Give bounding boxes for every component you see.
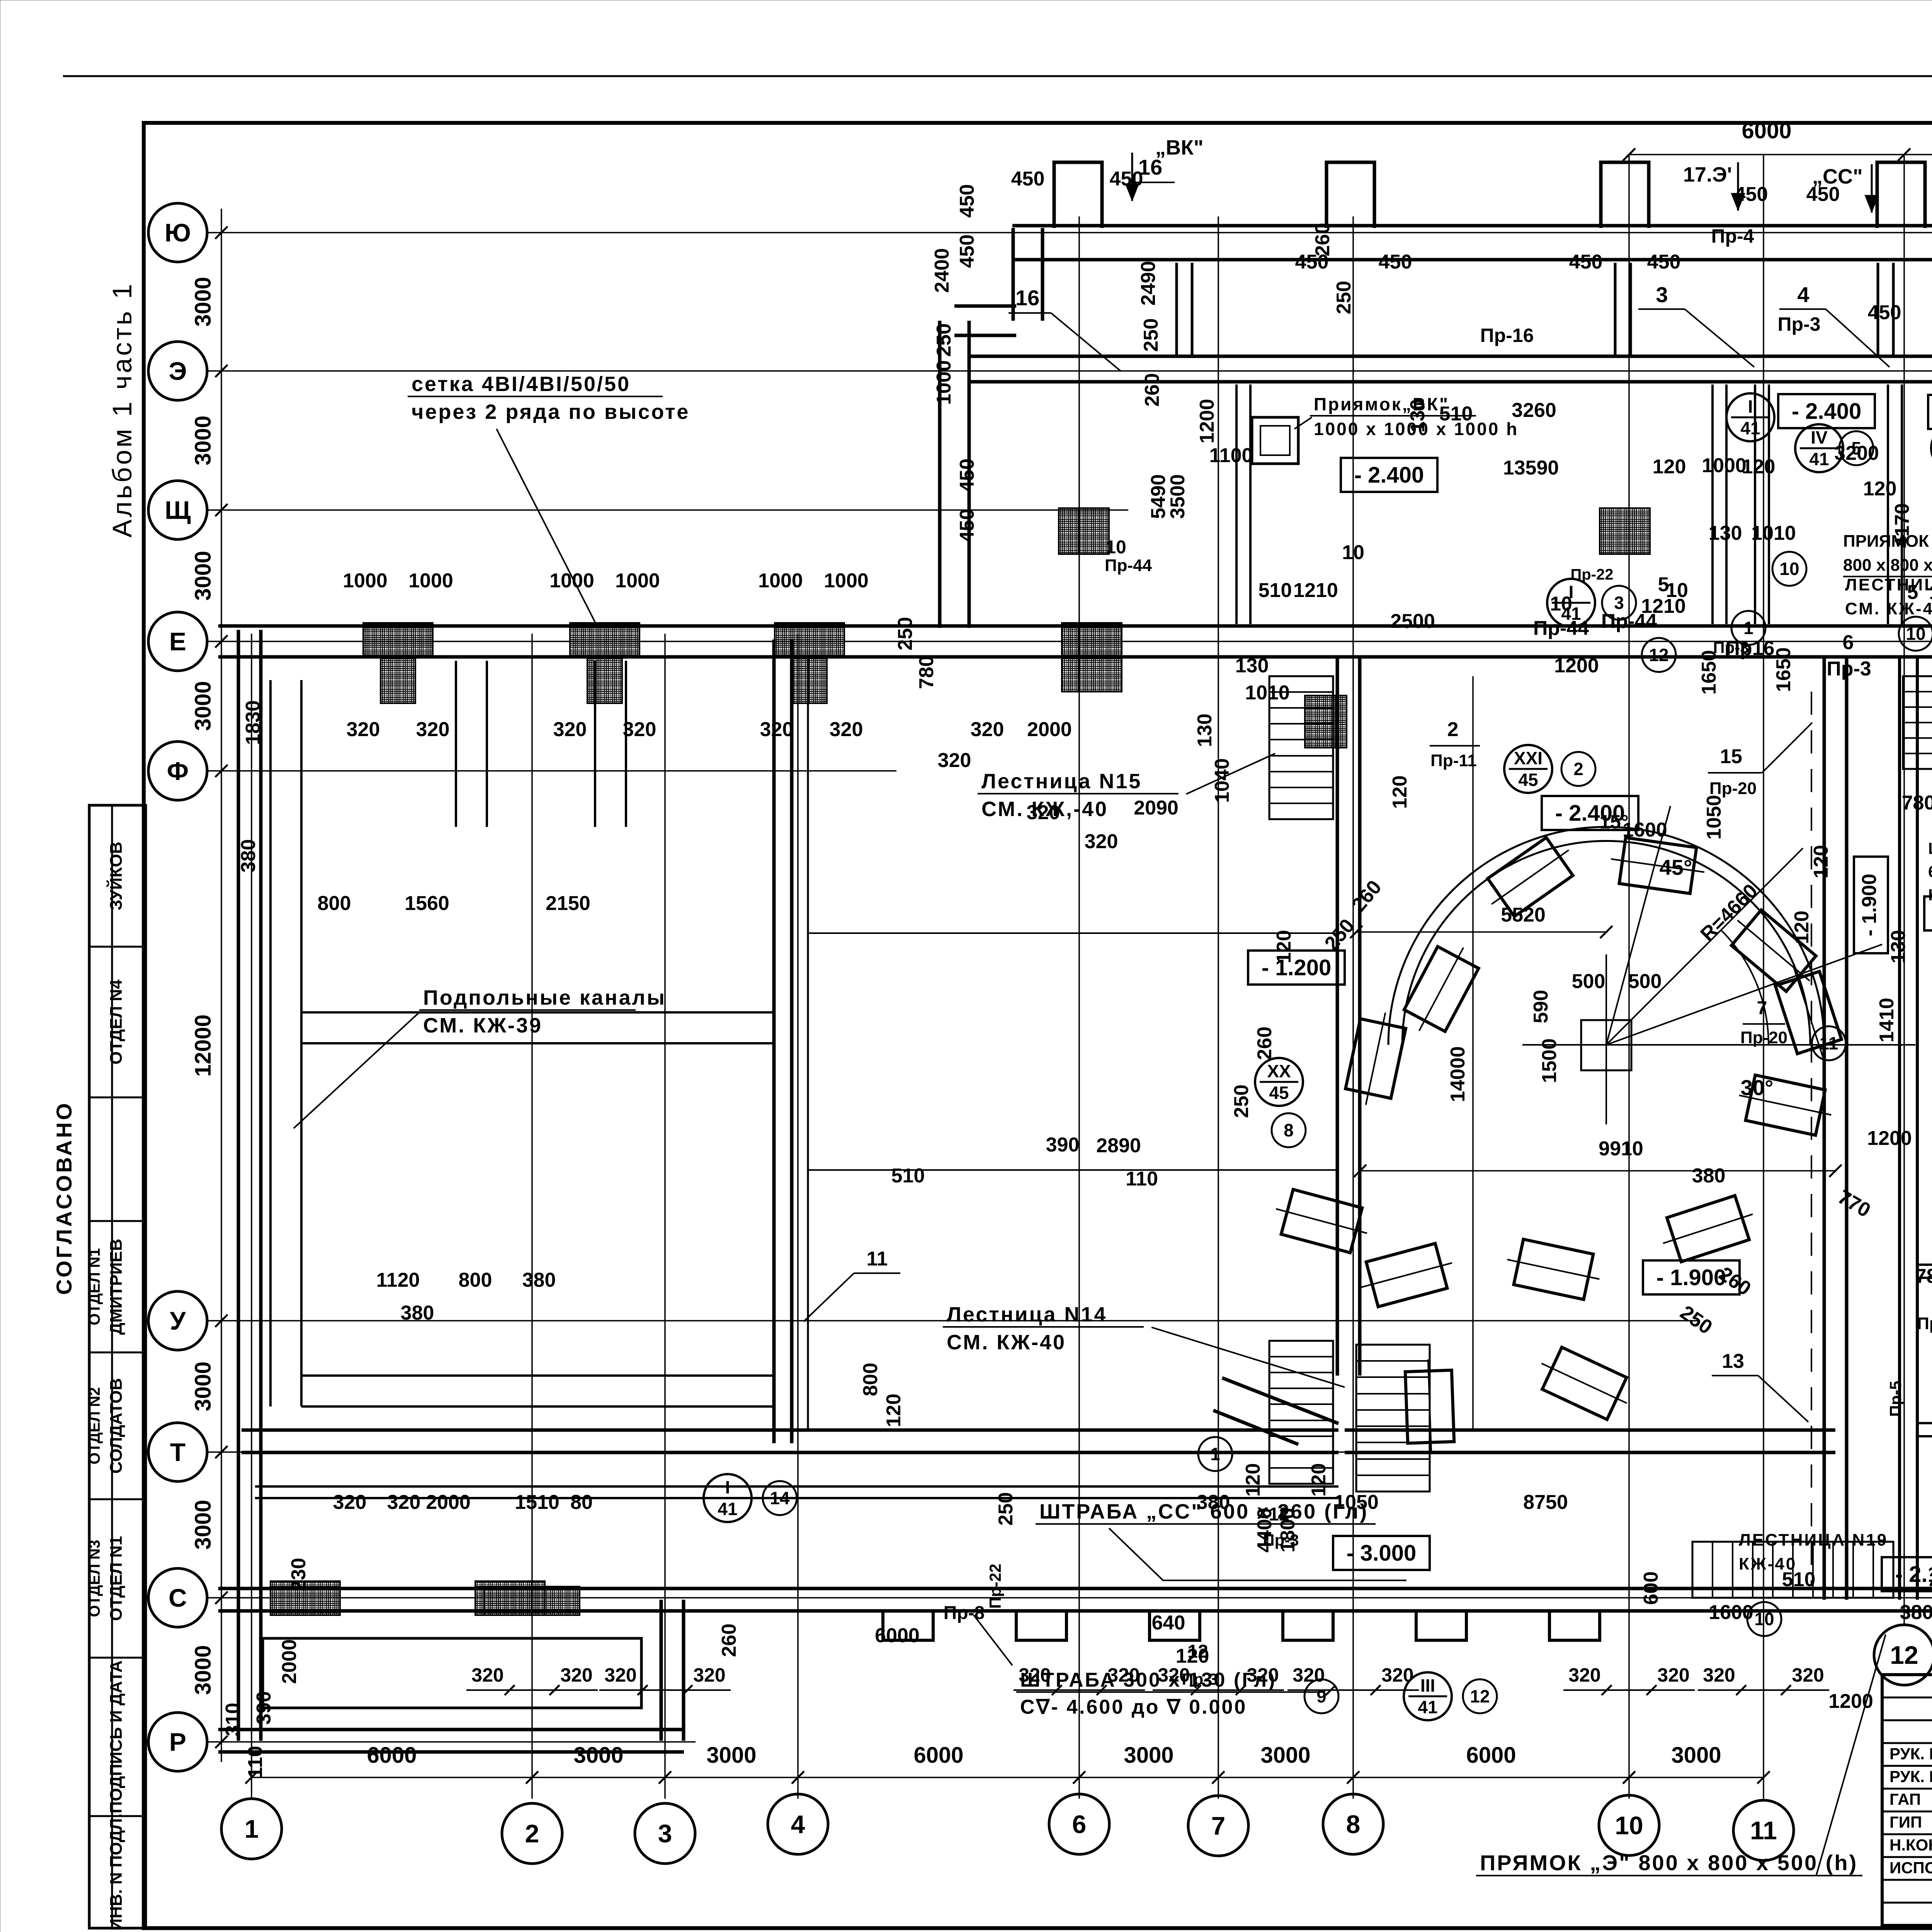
svg-text:4: 4 bbox=[791, 1810, 805, 1838]
svg-text:260: 260 bbox=[718, 1624, 740, 1657]
svg-text:13590: 13590 bbox=[1503, 457, 1559, 479]
svg-text:120: 120 bbox=[1742, 456, 1776, 478]
svg-text:1100: 1100 bbox=[1209, 444, 1253, 467]
axis circle Ю bbox=[148, 203, 207, 262]
svg-text:6000: 6000 bbox=[367, 1743, 417, 1768]
svg-text:через 2 ряда по высоте: через 2 ряда по высоте bbox=[412, 400, 690, 423]
svg-text:16: 16 bbox=[1015, 286, 1039, 310]
svg-text:4: 4 bbox=[1797, 282, 1809, 307]
svg-text:450: 450 bbox=[1569, 251, 1603, 273]
svg-text:450: 450 bbox=[956, 459, 978, 492]
svg-text:320: 320 bbox=[471, 1664, 503, 1686]
wall pilaster down at 3040 bbox=[1150, 1611, 1200, 1640]
svg-text:1000: 1000 bbox=[758, 570, 803, 592]
svg-text:Пр-5: Пр-5 bbox=[1886, 1381, 1905, 1417]
svg-text:12: 12 bbox=[1649, 645, 1668, 665]
axis line У bbox=[207, 1320, 1700, 1321]
hatched pad 1230,4092 bbox=[475, 1581, 545, 1615]
svg-text:380: 380 bbox=[1197, 1491, 1230, 1514]
svg-text:120: 120 bbox=[1389, 776, 1411, 809]
svg-text:XX: XX bbox=[1267, 1061, 1291, 1081]
svg-text:10: 10 bbox=[1666, 579, 1688, 602]
pit ВК (sump) box bbox=[1252, 417, 1298, 464]
svg-text:10: 10 bbox=[1105, 537, 1126, 558]
svg-text:3000: 3000 bbox=[573, 1743, 623, 1768]
svg-text:Приямок„ВК": Приямок„ВК" bbox=[1314, 394, 1449, 414]
svg-text:ШТРАБА„Э": ШТРАБА„Э" bbox=[1928, 839, 1932, 857]
svg-text:800: 800 bbox=[459, 1269, 492, 1291]
svg-text:320: 320 bbox=[1019, 1664, 1051, 1686]
svg-text:2400: 2400 bbox=[931, 248, 953, 293]
svg-text:320: 320 bbox=[1158, 1664, 1190, 1686]
svg-text:СМ. КЖ-40: СМ. КЖ-40 bbox=[1845, 599, 1932, 618]
svg-text:1120: 1120 bbox=[376, 1269, 420, 1291]
svg-text:120: 120 bbox=[1308, 1463, 1330, 1497]
axis line Ф bbox=[207, 770, 896, 772]
svg-text:1: 1 bbox=[1743, 618, 1753, 638]
wall pilaster up at 4920 bbox=[1877, 162, 1925, 228]
svg-text:Пр-16: Пр-16 bbox=[1480, 325, 1534, 346]
axis circle Т bbox=[148, 1423, 207, 1481]
svg-text:12000: 12000 bbox=[190, 1014, 216, 1077]
svg-text:320: 320 bbox=[830, 718, 863, 741]
svg-text:640: 640 bbox=[1152, 1612, 1185, 1634]
elevation box - 1.900 at 4252,3262 bbox=[1643, 1260, 1740, 1294]
svg-text:1200: 1200 bbox=[1828, 1690, 1873, 1713]
svg-text:450: 450 bbox=[1647, 251, 1681, 273]
svg-text:2500: 2500 bbox=[1390, 610, 1435, 633]
wall: left outer bbox=[237, 630, 240, 1741]
axis line 4 bbox=[797, 634, 799, 1799]
stair 14 landing grid bbox=[1356, 1345, 1430, 1492]
svg-text:Лестница N14: Лестница N14 bbox=[947, 1303, 1107, 1326]
svg-text:320: 320 bbox=[1657, 1664, 1689, 1686]
svg-text:3000: 3000 bbox=[190, 551, 216, 600]
svg-text:6: 6 bbox=[1072, 1810, 1087, 1838]
marker XXI/45 at 5060,1160 bbox=[1931, 424, 1932, 472]
svg-text:120: 120 bbox=[1273, 930, 1295, 964]
wall: E axis bbox=[218, 624, 1932, 628]
lift rect at 3640,3300 bbox=[1355, 1240, 1458, 1310]
svg-text:ОТДЕЛ N2: ОТДЕЛ N2 bbox=[86, 1387, 103, 1464]
wall: pit bottom bbox=[1345, 1429, 1835, 1432]
svg-text:320: 320 bbox=[553, 718, 587, 741]
marker (11) at 4733,2700 bbox=[1812, 1026, 1846, 1060]
marker (10) at 4631,1472 bbox=[1772, 552, 1806, 586]
svg-text:7: 7 bbox=[1211, 1811, 1226, 1840]
svg-text:780: 780 bbox=[1902, 792, 1932, 814]
svg-text:450: 450 bbox=[956, 235, 978, 268]
svg-text:14000: 14000 bbox=[1447, 1046, 1469, 1102]
svg-text:1600: 1600 bbox=[1709, 1601, 1753, 1624]
svg-text:10: 10 bbox=[1779, 559, 1799, 579]
dim line 5520 bbox=[1356, 931, 1607, 933]
marker I/41 at 4066,1560 bbox=[1547, 579, 1595, 627]
stage centre cross bbox=[1522, 1044, 1696, 1046]
svg-text:I: I bbox=[725, 1477, 730, 1497]
pad stub at 1030 bbox=[381, 657, 415, 703]
svg-text:1210: 1210 bbox=[1929, 581, 1932, 604]
svg-text:Пр-4: Пр-4 bbox=[1711, 225, 1754, 247]
lift rect at 4590,2460 bbox=[1723, 903, 1825, 999]
axis line Р bbox=[207, 1741, 696, 1743]
marker (1) at 3145,3763 bbox=[1198, 1437, 1232, 1471]
wall partition x=3065 bbox=[1175, 263, 1178, 355]
marker (10) at 4566,4190 bbox=[1747, 1602, 1781, 1636]
pad stub at 1565 bbox=[587, 657, 622, 703]
hatched pad 940,1612 bbox=[363, 623, 433, 657]
svg-text:320: 320 bbox=[760, 718, 794, 741]
wall: pit left bbox=[1336, 657, 1339, 1376]
svg-text:1000: 1000 bbox=[615, 570, 660, 592]
axis line 10 bbox=[1628, 155, 1630, 1799]
svg-text:380: 380 bbox=[237, 839, 260, 873]
stair 15 bbox=[1269, 676, 1333, 819]
svg-text:Пр-11: Пр-11 bbox=[1430, 751, 1477, 770]
svg-text:ОТДЕЛ N3: ОТДЕЛ N3 bbox=[86, 1540, 103, 1617]
axis circle 6 bbox=[1049, 1794, 1109, 1854]
svg-text:500: 500 bbox=[1628, 970, 1662, 993]
elevation box - 2.100 at 4870,4030 bbox=[1882, 1557, 1932, 1591]
wall partition x=3218 bbox=[1235, 384, 1238, 624]
svg-text:260: 260 bbox=[1311, 223, 1334, 257]
wall: top wing top (axis Ю) bbox=[1012, 224, 1932, 228]
svg-text:2490: 2490 bbox=[1137, 261, 1160, 306]
axis circle 3 bbox=[635, 1803, 695, 1864]
svg-text:450: 450 bbox=[1379, 251, 1412, 273]
svg-text:1: 1 bbox=[245, 1815, 259, 1843]
axis circle Ф bbox=[148, 742, 207, 800]
stage circle arc bbox=[1388, 827, 1824, 1045]
svg-text:Э: Э bbox=[169, 357, 187, 385]
svg-text:С∇- 4.600 до ∇ 0.000: С∇- 4.600 до ∇ 0.000 bbox=[1020, 1696, 1247, 1718]
svg-text:1200: 1200 bbox=[1867, 1127, 1912, 1150]
svg-text:120: 120 bbox=[1791, 911, 1813, 944]
svg-text:450: 450 bbox=[1868, 301, 1901, 324]
axis line 8 bbox=[1352, 216, 1354, 1799]
svg-text:250: 250 bbox=[1230, 1085, 1253, 1118]
svg-text:11: 11 bbox=[867, 1248, 888, 1270]
svg-text:15: 15 bbox=[1720, 745, 1742, 768]
wall partition x=4880 bbox=[1877, 263, 1879, 355]
svg-text:320: 320 bbox=[1792, 1664, 1824, 1686]
svg-text:390: 390 bbox=[1046, 1134, 1080, 1156]
svg-text:17.Э': 17.Э' bbox=[1683, 163, 1732, 186]
marker (12) at 4293,1695 bbox=[1642, 638, 1676, 672]
pad stub at 2095 bbox=[792, 657, 827, 703]
svg-text:Пр-44: Пр-44 bbox=[1533, 617, 1589, 639]
svg-text:1050: 1050 bbox=[1703, 795, 1725, 840]
axis circle 11 bbox=[1733, 1800, 1794, 1861]
svg-text:3000: 3000 bbox=[190, 277, 216, 327]
elevation box - 3.000 at 3450,3975 bbox=[1333, 1536, 1430, 1570]
svg-text:Пр-3: Пр-3 bbox=[1778, 313, 1821, 335]
svg-text:3260: 3260 bbox=[1512, 399, 1556, 422]
svg-text:- 1.900: - 1.900 bbox=[1858, 874, 1881, 936]
svg-text:110: 110 bbox=[244, 1746, 267, 1778]
corridor dashed line bbox=[1811, 692, 1812, 1584]
top dimension chain bbox=[1629, 154, 1932, 155]
left margin strip bbox=[89, 805, 146, 1928]
svg-text:1050: 1050 bbox=[1334, 1491, 1379, 1514]
axis line 6 bbox=[1078, 216, 1080, 1799]
svg-text:320: 320 bbox=[1293, 1664, 1325, 1686]
svg-text:У: У bbox=[170, 1306, 186, 1335]
svg-text:320: 320 bbox=[1027, 801, 1060, 824]
axis line 1 bbox=[251, 634, 252, 1799]
lift rect at 4100,3580 bbox=[1532, 1342, 1637, 1424]
svg-text:ЛЕСТНИЦА N16: ЛЕСТНИЦА N16 bbox=[1845, 575, 1932, 594]
underfloor channel E (bottom) bbox=[301, 1374, 773, 1377]
pit-side line bbox=[807, 657, 809, 1430]
svg-text:2: 2 bbox=[1447, 718, 1459, 741]
svg-text:1040: 1040 bbox=[1211, 758, 1233, 803]
svg-text:- 2.400: - 2.400 bbox=[1555, 801, 1625, 826]
svg-text:4400: 4400 bbox=[1253, 1508, 1276, 1553]
svg-text:7: 7 bbox=[1757, 998, 1767, 1019]
svg-text:6000: 6000 bbox=[1466, 1743, 1516, 1768]
axis line Э bbox=[207, 370, 1932, 372]
lift rect at 4420,3180 bbox=[1656, 1192, 1760, 1265]
svg-text:380: 380 bbox=[522, 1269, 556, 1291]
axis circle 2 bbox=[502, 1803, 562, 1864]
svg-text:- 3.000: - 3.000 bbox=[1347, 1541, 1417, 1566]
axis circle Р bbox=[148, 1713, 207, 1771]
svg-text:800 х 800 х 500 (h): 800 х 800 х 500 (h) bbox=[1843, 556, 1932, 575]
marker (8) at 3335,2925 bbox=[1272, 1113, 1306, 1147]
svg-text:41: 41 bbox=[718, 1499, 737, 1519]
stair 14 bbox=[1269, 1341, 1333, 1484]
svg-text:320: 320 bbox=[333, 1491, 367, 1514]
svg-text:Н.КОНТР.: Н.КОНТР. bbox=[1889, 1836, 1932, 1854]
wall pilaster down at 2695 bbox=[1016, 1611, 1066, 1640]
axis line 2 bbox=[531, 634, 533, 1799]
axis line Е bbox=[207, 641, 1932, 642]
svg-text:380: 380 bbox=[1692, 1165, 1726, 1187]
svg-text:130: 130 bbox=[1887, 930, 1910, 964]
svg-text:510: 510 bbox=[1259, 579, 1292, 602]
svg-text:I: I bbox=[1748, 396, 1753, 417]
svg-text:3: 3 bbox=[1656, 282, 1668, 307]
svg-text:Пр-3: Пр-3 bbox=[1827, 658, 1871, 680]
wall: bottom-left block bbox=[218, 1587, 696, 1590]
dim line 14000 vertical bbox=[1472, 676, 1474, 1430]
hatched pad 4140,1315 bbox=[1600, 508, 1650, 554]
svg-text:510: 510 bbox=[1439, 403, 1473, 425]
svg-text:320: 320 bbox=[693, 1664, 725, 1686]
svg-text:80: 80 bbox=[570, 1491, 593, 1514]
svg-text:С: С bbox=[168, 1583, 187, 1612]
lift rect at 3560,2740 bbox=[1343, 1008, 1408, 1110]
label: приямок 800x800 top bbox=[1843, 576, 1932, 577]
axis circle 12 bbox=[1874, 1625, 1932, 1685]
svg-text:3000: 3000 bbox=[190, 415, 216, 465]
svg-text:320: 320 bbox=[1568, 1664, 1600, 1686]
svg-text:380: 380 bbox=[401, 1302, 434, 1324]
svg-text:СМ. КЖ-39: СМ. КЖ-39 bbox=[423, 1014, 543, 1037]
wall: diagonal chamfer bbox=[1222, 1378, 1338, 1423]
lift rect at 3420,3160 bbox=[1270, 1186, 1373, 1255]
wall partition x=4200 bbox=[1614, 263, 1617, 355]
svg-text:320: 320 bbox=[387, 1491, 421, 1514]
elevation box - 2.400 at 3990,2060 bbox=[1542, 796, 1638, 830]
svg-text:3000: 3000 bbox=[1671, 1743, 1721, 1768]
svg-text:1010: 1010 bbox=[1751, 522, 1796, 544]
marker I/41 at 4530,1080 bbox=[1726, 393, 1774, 441]
lift rect at 4290,2240 bbox=[1608, 836, 1708, 895]
svg-text:4170: 4170 bbox=[1891, 503, 1913, 548]
svg-text:130: 130 bbox=[1235, 655, 1269, 677]
svg-text:510: 510 bbox=[891, 1165, 925, 1187]
middle room line y3028 bbox=[808, 1169, 1338, 1171]
svg-text:260: 260 bbox=[1253, 1027, 1276, 1060]
wall pilaster up at 3495 bbox=[1327, 162, 1374, 228]
svg-text:500: 500 bbox=[1572, 970, 1605, 993]
svg-text:2: 2 bbox=[525, 1819, 539, 1848]
svg-text:ОТДЕЛ N1: ОТДЕЛ N1 bbox=[86, 1248, 103, 1325]
axis circle 8 bbox=[1323, 1794, 1383, 1854]
wall partition x=4450 bbox=[1711, 384, 1714, 624]
wall pilaster up at 2790 bbox=[1054, 162, 1102, 228]
svg-text:3: 3 bbox=[658, 1819, 672, 1848]
svg-text:120: 120 bbox=[1176, 1645, 1209, 1667]
hatched pad 3377,1800 bbox=[1305, 696, 1347, 748]
svg-text:2400: 2400 bbox=[1929, 1568, 1932, 1591]
wall: left room bottom bbox=[241, 1429, 1338, 1432]
svg-text:41: 41 bbox=[1740, 418, 1760, 438]
svg-text:ПРЯМОК „Э" 800 х 800 х 500: ПРЯМОК „Э" 800 х 800 х 500 (h) bbox=[1480, 1850, 1858, 1875]
svg-text:45: 45 bbox=[1518, 770, 1538, 790]
svg-text:8750: 8750 bbox=[1523, 1491, 1568, 1514]
svg-text:320: 320 bbox=[623, 718, 656, 741]
svg-text:Пр-8: Пр-8 bbox=[944, 1603, 985, 1623]
svg-text:6: 6 bbox=[1843, 631, 1854, 654]
middle room line y2415 bbox=[808, 932, 1335, 934]
svg-text:1000: 1000 bbox=[408, 570, 453, 592]
svg-text:1800: 1800 bbox=[1277, 1508, 1299, 1553]
stage centre square bbox=[1581, 1020, 1631, 1070]
lift rect at 3730,2560 bbox=[1399, 937, 1484, 1042]
wall pilaster down at 3730 bbox=[1416, 1611, 1466, 1640]
underfloor channel C bbox=[455, 661, 457, 827]
svg-text:45°: 45° bbox=[1660, 855, 1692, 879]
axis circle У bbox=[148, 1291, 207, 1350]
marker (9) at 3420,4390 bbox=[1304, 1679, 1338, 1713]
svg-text:1560: 1560 bbox=[405, 892, 449, 915]
svg-text:ГИП: ГИП bbox=[1889, 1813, 1922, 1831]
svg-text:1510: 1510 bbox=[515, 1491, 560, 1514]
elevation box - 2.400 at 4602,1020 bbox=[1778, 394, 1875, 428]
lift rect at 4020,3285 bbox=[1502, 1237, 1604, 1302]
svg-text:- 2.400: - 2.400 bbox=[1354, 463, 1424, 488]
svg-text:3000: 3000 bbox=[190, 1361, 216, 1411]
svg-text:РУК. КБ-1: РУК. КБ-1 bbox=[1889, 1745, 1932, 1763]
dim line 9910 bbox=[1360, 1170, 1835, 1172]
svg-text:230: 230 bbox=[287, 1558, 310, 1592]
elevation box - 1.900 at 4980,2320 bbox=[1924, 896, 1932, 930]
svg-text:320: 320 bbox=[1247, 1664, 1279, 1686]
stair 19 bbox=[1692, 1542, 1893, 1598]
svg-text:450: 450 bbox=[956, 184, 978, 218]
svg-text:250: 250 bbox=[894, 617, 917, 651]
axis line Щ bbox=[207, 509, 1128, 511]
svg-text:РУК. КБ-1: РУК. КБ-1 bbox=[1889, 1767, 1932, 1786]
svg-text:Р: Р bbox=[169, 1728, 186, 1756]
svg-text:ГАП: ГАП bbox=[1889, 1790, 1921, 1808]
svg-text:2000: 2000 bbox=[278, 1639, 301, 1684]
svg-text:Е: Е bbox=[169, 627, 186, 656]
svg-text:1000: 1000 bbox=[933, 360, 955, 405]
hatched pad 2748,1612 bbox=[1062, 623, 1122, 692]
svg-text:800: 800 bbox=[859, 1363, 882, 1396]
elevation box - 1.200 at 3230,2460 bbox=[1248, 951, 1345, 985]
svg-text:10: 10 bbox=[1754, 1609, 1774, 1629]
svg-text:IV: IV bbox=[1811, 427, 1828, 447]
svg-text:250: 250 bbox=[933, 323, 955, 357]
svg-text:320: 320 bbox=[604, 1664, 636, 1686]
svg-text:320: 320 bbox=[347, 718, 380, 741]
svg-text:120: 120 bbox=[883, 1394, 905, 1427]
svg-text:2150: 2150 bbox=[546, 892, 590, 915]
outer page edge top bbox=[63, 75, 1932, 77]
svg-text:ДМИТРИЕВ: ДМИТРИЕВ bbox=[107, 1239, 126, 1335]
svg-text:- 1.200: - 1.200 bbox=[1262, 955, 1332, 980]
marker IV/41 at 4708,1160 bbox=[1795, 424, 1843, 472]
svg-text:6000: 6000 bbox=[913, 1743, 963, 1768]
marker (2) at 4085,1990 bbox=[1561, 752, 1595, 786]
svg-text:6000: 6000 bbox=[875, 1624, 920, 1647]
svg-text:250: 250 bbox=[1333, 281, 1355, 315]
svg-text:ОТДЕЛ N1: ОТДЕЛ N1 bbox=[107, 1536, 126, 1621]
wall: wing mid (axis Э) bbox=[970, 355, 1932, 358]
lift rect at 3960,2270 bbox=[1478, 831, 1582, 923]
svg-text:1830: 1830 bbox=[242, 700, 264, 745]
svg-text:780: 780 bbox=[1915, 1265, 1932, 1287]
underfloor channel B (horizontal) bbox=[301, 1011, 773, 1014]
svg-text:3000: 3000 bbox=[190, 681, 216, 731]
svg-text:3500: 3500 bbox=[1167, 474, 1189, 519]
svg-text:250: 250 bbox=[995, 1492, 1017, 1526]
elevation box - 3.450 at 4990,1022 bbox=[1928, 395, 1932, 429]
svg-text:ОТДЕЛ N4: ОТДЕЛ N4 bbox=[107, 979, 126, 1065]
svg-text:- 2.400: - 2.400 bbox=[1792, 399, 1862, 424]
svg-text:10: 10 bbox=[1550, 593, 1572, 615]
marker XX/45 at 3310,2800 bbox=[1255, 1058, 1303, 1106]
svg-text:2: 2 bbox=[1573, 759, 1583, 779]
svg-text:120: 120 bbox=[1863, 478, 1897, 500]
left dimension chain bbox=[221, 209, 222, 1762]
svg-text:600: 600 bbox=[1640, 1571, 1662, 1605]
svg-text:СОЛДАТОВ: СОЛДАТОВ bbox=[107, 1378, 126, 1473]
svg-text:ИСПОЛН.: ИСПОЛН. bbox=[1889, 1859, 1932, 1877]
svg-text:1000: 1000 bbox=[824, 570, 869, 592]
axis line 12 bbox=[1903, 155, 1905, 1625]
axis circle 7 bbox=[1188, 1796, 1248, 1856]
svg-text:1000: 1000 bbox=[549, 570, 594, 592]
svg-text:3000: 3000 bbox=[1124, 1743, 1173, 1768]
axis circle С bbox=[148, 1568, 207, 1627]
svg-text:ИНВ. N ПОДЛ.: ИНВ. N ПОДЛ. bbox=[107, 1813, 126, 1930]
svg-text:110: 110 bbox=[1126, 1168, 1158, 1190]
svg-text:780: 780 bbox=[915, 656, 938, 689]
svg-text:800: 800 bbox=[318, 892, 351, 915]
svg-text:130: 130 bbox=[1709, 522, 1742, 544]
svg-text:2000: 2000 bbox=[426, 1491, 471, 1514]
svg-text:2890: 2890 bbox=[1096, 1134, 1141, 1157]
marker (14) at 2018,3877 bbox=[763, 1481, 797, 1515]
lift rect at 3700,3640 bbox=[1405, 1359, 1454, 1454]
svg-text:Т: Т bbox=[170, 1438, 185, 1466]
